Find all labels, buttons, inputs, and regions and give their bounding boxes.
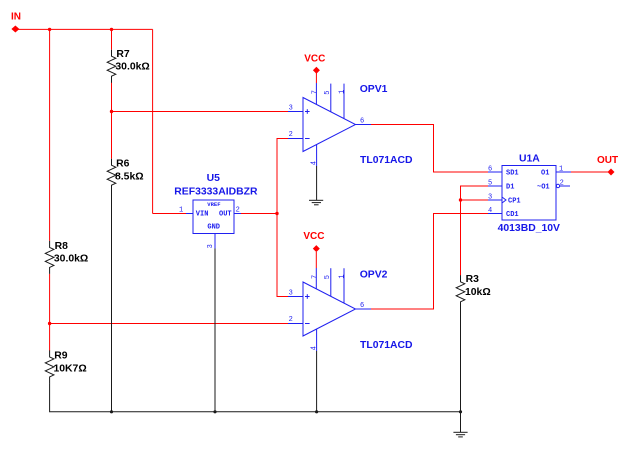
- U5 pin 2 OUT stub: [234, 213, 241, 215]
- wire node down to R9 top: [49, 324, 51, 351]
- svg-text:1: 1: [179, 207, 183, 215]
- svg-text:7: 7: [311, 90, 319, 94]
- svg-text:4013BD_10V: 4013BD_10V: [498, 223, 560, 234]
- terminal IN: [11, 12, 21, 33]
- OPV2 plus mark: [305, 296, 310, 298]
- svg-text:1: 1: [338, 274, 346, 278]
- wire U5 GND to ground bus: [214, 249, 216, 412]
- svg-text:SD1: SD1: [506, 170, 519, 178]
- node junction R8/R9 divider: [48, 322, 51, 325]
- svg-text:TL071ACD: TL071ACD: [360, 155, 413, 166]
- node junction IN/R7 column: [110, 28, 113, 31]
- wire to U5 VIN pin 1: [153, 213, 186, 215]
- OPV1 pin 2 inverting stub: [288, 138, 303, 140]
- svg-text:OUT: OUT: [219, 210, 232, 218]
- svg-text:1: 1: [338, 90, 346, 94]
- svg-text:VCC: VCC: [304, 53, 325, 64]
- svg-text:3: 3: [289, 104, 293, 112]
- OPV2 pin 7 V+ stub: [315, 268, 317, 289]
- node junction R7 bottom / R6 top: [110, 110, 113, 113]
- OPV2 pin 5 offset stub: [330, 268, 332, 296]
- wire U1A O1 pin 1 to OUT: [571, 171, 608, 173]
- wire IN down to R7 top: [111, 29, 113, 49]
- wire OPV2 output to U1A CD1 pin 4: [371, 214, 488, 310]
- node junction bus/R3: [459, 410, 462, 413]
- svg-text:VCC: VCC: [303, 231, 324, 242]
- ground symbol at bus right end: [453, 432, 467, 437]
- OPV1 pin 4 V- stub: [316, 145, 318, 167]
- flip-flop U1A: [488, 153, 571, 234]
- svg-text:U5: U5: [207, 173, 221, 184]
- svg-text:O1: O1: [541, 170, 549, 178]
- OPV2 pin 2 inverting stub: [288, 323, 303, 325]
- svg-text:4: 4: [488, 207, 492, 215]
- svg-text:R7: R7: [116, 49, 130, 60]
- wire R3 bottom to ground: [460, 306, 462, 432]
- OPV1 pin 7 V+ stub: [315, 83, 317, 105]
- OPV1 triangle body: [303, 98, 356, 152]
- U1A pin 3 CP1 stub: [488, 199, 502, 201]
- svg-text:3: 3: [488, 194, 492, 202]
- node junction D1/CP1 net: [459, 198, 462, 201]
- OPV1 plus mark: [305, 111, 310, 113]
- svg-text:OPV1: OPV1: [360, 84, 388, 95]
- voltage reference U5: [174, 173, 258, 248]
- wire OPV2 pin 4 to ground bus: [316, 351, 318, 412]
- svg-text:5: 5: [324, 91, 332, 95]
- svg-text:R6: R6: [116, 158, 130, 169]
- resistor R8: [45, 241, 88, 274]
- node junction bus/OPV2 pin 4: [315, 410, 318, 413]
- svg-text:30.0kΩ: 30.0kΩ: [54, 254, 88, 265]
- wire R8 bottom to node: [49, 274, 51, 324]
- U1A box body: [502, 166, 556, 221]
- svg-text:R9: R9: [54, 350, 68, 361]
- svg-text:2: 2: [236, 207, 240, 215]
- terminal OUT: [597, 155, 618, 176]
- U1A pin 2 inversion bubble: [556, 184, 559, 187]
- OPV2 pin 4 V- stub: [316, 329, 318, 351]
- OPV2 pin 3 noninverting stub: [288, 296, 303, 298]
- OPV2 pin 6 output stub: [356, 308, 372, 310]
- svg-text:5: 5: [324, 275, 332, 279]
- U1A pin 5 D1 stub: [488, 185, 502, 187]
- U1A pin 4 CD1 stub: [488, 213, 502, 215]
- wire R6 bottom to ground bus: [111, 191, 113, 412]
- U5 pin 1 VIN stub: [186, 213, 193, 215]
- wire VREF node down to OPV2 plus input: [277, 214, 288, 297]
- wire OPV1 pin 4 to ground: [316, 166, 318, 200]
- resistor R3: [456, 274, 490, 308]
- svg-text:30.0kΩ: 30.0kΩ: [115, 61, 149, 72]
- power VCC at OPV2: [303, 231, 324, 268]
- wire node to OPV1 plus input: [112, 111, 289, 113]
- svg-text:OPV2: OPV2: [360, 269, 388, 280]
- svg-text:TL071ACD: TL071ACD: [360, 340, 413, 351]
- OPV1 pin 3 noninverting stub: [288, 111, 303, 113]
- OPV1 pin 1 offset stub: [343, 84, 345, 119]
- svg-text:4: 4: [311, 346, 319, 350]
- wire R7 bottom to node: [111, 83, 113, 112]
- svg-text:6: 6: [488, 166, 492, 174]
- OPV1 pin 5 offset stub: [330, 84, 332, 112]
- svg-text:3: 3: [289, 289, 293, 297]
- svg-text:10K7Ω: 10K7Ω: [54, 364, 87, 375]
- U1A pin 1 O1 stub: [556, 171, 571, 173]
- U1A pin 6 SD1 stub: [488, 171, 502, 173]
- op-amp OPV2: [288, 268, 413, 351]
- resistor R7: [107, 49, 150, 83]
- U1A pin 2 notO1 stub: [560, 185, 570, 187]
- svg-text:REF3333AIDBZR: REF3333AIDBZR: [174, 186, 258, 197]
- svg-text:CP1: CP1: [508, 198, 521, 206]
- svg-text:7: 7: [311, 275, 319, 279]
- wire R9 bottom to ground bus: [50, 383, 461, 412]
- svg-text:VIN: VIN: [196, 210, 209, 218]
- U5 pin 3 GND stub: [214, 234, 216, 249]
- power VCC at OPV1: [304, 53, 325, 83]
- wire node to U1A CP1 pin 3: [461, 199, 489, 201]
- wire node down to R6 top: [111, 112, 113, 159]
- wire divider node to OPV2 minus input: [50, 323, 288, 325]
- svg-text:1: 1: [559, 166, 563, 174]
- svg-text:6: 6: [360, 118, 364, 126]
- wire VREF node up to OPV1 minus input: [277, 139, 288, 214]
- wire IN horizontal to corner: [18, 28, 153, 30]
- resistor R6: [107, 158, 143, 191]
- resistor R9: [45, 350, 86, 383]
- svg-text:IN: IN: [11, 12, 21, 23]
- node junction bus/U5 GND: [213, 410, 216, 413]
- svg-text:6: 6: [360, 302, 364, 310]
- svg-text:OUT: OUT: [597, 155, 618, 166]
- svg-text:CD1: CD1: [506, 211, 519, 219]
- op-amp OPV1: [288, 83, 413, 166]
- OPV2 minus mark: [305, 323, 310, 325]
- node junction VREF net: [275, 212, 278, 215]
- svg-text:GND: GND: [207, 223, 220, 231]
- svg-text:4: 4: [311, 161, 319, 165]
- ground symbol below OPV1: [309, 200, 323, 205]
- svg-text:10kΩ: 10kΩ: [465, 287, 491, 298]
- svg-text:5: 5: [488, 180, 492, 188]
- U5 box body: [193, 200, 234, 234]
- wire OPV1 output to U1A SD1 pin 6: [371, 125, 488, 173]
- wire IN down to R8 top: [49, 29, 51, 241]
- svg-text:U1A: U1A: [519, 153, 540, 164]
- svg-text:2: 2: [289, 316, 293, 324]
- svg-text:~O1: ~O1: [537, 184, 550, 192]
- node junction bus/R6: [110, 410, 113, 413]
- wire U5 OUT pin 2 to node: [241, 213, 277, 215]
- wire IN corner down to U5: [152, 29, 154, 213]
- wire U1A D1 pin 5 down to R3 top: [461, 186, 489, 276]
- node junction IN/R8 column: [48, 28, 51, 31]
- OPV2 pin 1 offset stub: [343, 268, 345, 303]
- svg-text:3: 3: [207, 244, 215, 248]
- svg-text:D1: D1: [506, 184, 514, 192]
- U1A clock wedge at CP1: [502, 197, 506, 203]
- svg-text:R8: R8: [55, 241, 69, 252]
- svg-text:2: 2: [289, 131, 293, 139]
- svg-text:VREF: VREF: [207, 201, 220, 208]
- OPV1 pin 6 output stub: [356, 124, 372, 126]
- svg-text:8.5kΩ: 8.5kΩ: [115, 172, 144, 183]
- svg-text:2: 2: [560, 180, 564, 188]
- svg-text:R3: R3: [466, 274, 480, 285]
- OPV2 triangle body: [303, 282, 356, 336]
- OPV1 minus mark: [305, 138, 310, 140]
